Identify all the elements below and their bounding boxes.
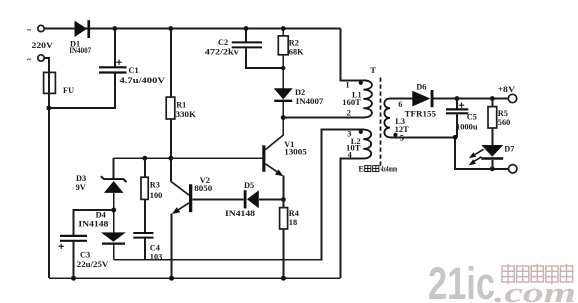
diode D4: [101, 232, 126, 243]
svg-text:1000u: 1000u: [456, 122, 478, 131]
wire: R4 bottom to ground rail: [282, 229, 284, 278]
junction: R5 top: [490, 96, 495, 101]
svg-text:E: E: [358, 165, 364, 174]
junction: C1 top: [112, 26, 117, 31]
transistor V2 collector diagonal: [171, 181, 189, 195]
svg-text:R2: R2: [289, 38, 299, 47]
wire: V1 emitter down to R4: [282, 176, 284, 208]
wire: R2/D2 branch from top rail: [282, 29, 284, 37]
svg-text:472/2kv: 472/2kv: [205, 48, 240, 57]
svg-text:6: 6: [398, 100, 402, 109]
svg-text:330K: 330K: [176, 110, 197, 119]
junction: R2 top: [281, 26, 286, 31]
wire: R5 to D7: [491, 128, 493, 145]
svg-text:C1: C1: [129, 66, 139, 75]
wire: V2 emitter down to ground rail: [171, 214, 173, 279]
junction: C1 return on fuse line: [46, 106, 51, 111]
wire: pin 5 line to output return: [390, 137, 508, 169]
svg-text:D6: D6: [416, 82, 426, 91]
svg-text:C3: C3: [80, 251, 90, 260]
svg-text:100: 100: [150, 191, 162, 200]
wire: C1 branch from top rail: [114, 29, 116, 67]
svg-text:R4: R4: [289, 209, 299, 218]
junction: V1 emitter / R4 / D5: [281, 197, 286, 202]
svg-text:8050: 8050: [194, 184, 212, 193]
terminal: AC input bottom: [38, 55, 44, 61]
svg-text:18: 18: [289, 218, 297, 227]
svg-text:21ic: 21ic: [428, 258, 495, 303]
wire: C5 top lead: [456, 99, 458, 109]
label E core (E磁芯4x4mm): [358, 165, 397, 174]
capacitor C4: [133, 233, 153, 238]
wire: D7 bottom lead: [491, 160, 493, 169]
svg-text:22u/25V: 22u/25V: [77, 260, 109, 269]
transformer core (dashed): [380, 78, 382, 167]
wire: D2 to V1 collector node: [282, 102, 284, 135]
wire: pin 6 to D6: [390, 98, 412, 100]
junction: C3 on ground rail: [71, 276, 76, 281]
wire: C5 bottom lead: [456, 114, 458, 137]
wire: D6 to +8V terminal: [434, 98, 509, 100]
wire: fuse line down left side to ground rail: [48, 72, 50, 278]
phase dot L2: [359, 130, 363, 134]
capacitor C5 (polarized): [446, 103, 468, 114]
wire: V2 base line to D5: [192, 199, 243, 201]
svg-text:TFR155: TFR155: [405, 110, 437, 119]
diode D1: [75, 20, 91, 38]
svg-text:IN4007: IN4007: [69, 46, 91, 55]
transformer feedback winding L2: [363, 130, 371, 159]
phase dot L1: [359, 81, 363, 85]
wire: C1 bottom to fuse line: [49, 74, 115, 109]
transistor V1 base bar: [262, 145, 265, 172]
wire: C2 branch from top rail: [245, 29, 247, 43]
wire: C3 bottom to ground rail: [73, 242, 75, 278]
svg-text:13005: 13005: [284, 148, 307, 157]
transistor V1 emitter lead with arrow: [265, 164, 283, 176]
LED D7: [469, 145, 504, 166]
svg-text:4x4mm: 4x4mm: [381, 165, 398, 174]
diode D2: [274, 88, 293, 101]
fuse FU: [44, 72, 56, 93]
resistor R1: [166, 97, 175, 119]
wire: base rail corner down to zener D3: [113, 158, 115, 178]
transistor V2 collector lead: [170, 158, 172, 181]
junction: C5 top: [455, 96, 460, 101]
wire: transformer pin 4 down to ground rail: [340, 159, 363, 279]
wire: C2 bottom to R2 line: [246, 48, 283, 68]
resistor R4: [280, 208, 288, 229]
svg-text:D2: D2: [295, 88, 305, 97]
svg-text:C4: C4: [150, 244, 160, 253]
junction: R1 / V2 collector on base rail: [168, 156, 173, 161]
wire: R5 branch: [491, 99, 493, 107]
svg-text:D7: D7: [504, 145, 514, 154]
svg-text:~: ~: [27, 55, 32, 64]
wire: D4 bottom to feedback line: [113, 245, 115, 260]
transistor V2 base bar: [189, 184, 192, 212]
terminal: output return: [509, 165, 517, 173]
transistor V2 emitter lead with arrow: [172, 203, 189, 214]
terminal: AC input top: [38, 25, 44, 31]
svg-text:103: 103: [150, 253, 162, 262]
wire: feedback line to transformer pin 3: [114, 130, 364, 260]
svg-text:68K: 68K: [289, 47, 304, 56]
svg-text:2: 2: [347, 108, 351, 117]
svg-text:IN4148: IN4148: [78, 219, 108, 228]
capacitor C2: [232, 42, 262, 47]
svg-text:FU: FU: [63, 86, 74, 95]
wire: D3 to D4: [113, 193, 115, 233]
watermark 中国电子网 (faux glyphs): [502, 264, 573, 285]
junction: R1 top: [168, 26, 173, 31]
transformer secondary winding L3: [384, 99, 390, 138]
junction: D7 bottom on return line: [490, 166, 495, 171]
svg-text:220V: 220V: [32, 41, 54, 50]
junction: V2 emitter on ground rail: [169, 276, 174, 281]
svg-text:160T: 160T: [342, 98, 361, 107]
junction: C2 top: [244, 26, 249, 31]
wire: ground rail: [49, 277, 341, 279]
wire: R1 bottom to base rail: [170, 119, 172, 158]
junction: transformer pin2 tap: [281, 115, 286, 120]
svg-text:R5: R5: [498, 109, 508, 118]
wire: R2 bottom to D2: [282, 55, 284, 89]
svg-text:1: 1: [346, 81, 350, 90]
wire: bottom input terminal to fuse line: [44, 58, 49, 72]
terminal: +8V output: [508, 94, 516, 102]
capacitor C1 (polarized): [99, 60, 127, 73]
junction: C5 bottom on pin5 line: [453, 135, 458, 140]
wire: R1 branch from top rail: [170, 29, 172, 98]
wire: R3 branch from base rail: [144, 158, 146, 177]
resistor R2: [278, 36, 288, 55]
wire: base rail (V1 base to D3 corner): [114, 157, 263, 159]
wire: lead to transformer pin 2: [283, 117, 363, 119]
svg-text:9V: 9V: [76, 183, 86, 192]
svg-text:R3: R3: [150, 181, 160, 190]
svg-text:~: ~: [27, 26, 32, 35]
svg-text:IN4007: IN4007: [296, 97, 324, 106]
svg-text:+8V: +8V: [498, 85, 516, 94]
diode D6: [412, 90, 433, 107]
resistor R5: [488, 107, 497, 128]
junction: C3 tap between D3 and D4: [111, 208, 116, 213]
svg-text:R1: R1: [176, 101, 186, 110]
junction: R4 on ground rail: [281, 276, 286, 281]
svg-text:4: 4: [348, 151, 352, 160]
junction: C2 bottom on R2 line: [281, 66, 285, 70]
phase dot L3: [393, 133, 397, 137]
wire: D5 to V1 emitter node: [259, 199, 284, 201]
junction: R3 on base rail: [142, 156, 147, 161]
svg-text:560: 560: [498, 118, 510, 127]
svg-text:D5: D5: [244, 181, 254, 190]
resistor R3: [141, 177, 148, 199]
wire: tap to C3 top: [74, 210, 114, 235]
wire: top right corner down to transformer pin 1: [340, 29, 363, 81]
diode D5: [244, 190, 259, 208]
svg-text:T: T: [370, 66, 376, 75]
wire: R3 bottom to C4: [144, 199, 146, 232]
svg-text:C5: C5: [467, 113, 477, 122]
zener diode D3: [101, 176, 127, 193]
capacitor C3 (polarized): [59, 236, 88, 249]
wire: top AC rail: [44, 28, 340, 30]
svg-text:4.7u/400V: 4.7u/400V: [120, 76, 166, 85]
transistor V1 collector lead: [265, 135, 283, 150]
svg-text:IN4148: IN4148: [225, 209, 255, 218]
transformer T primary winding L1: [363, 80, 372, 117]
svg-text:C2: C2: [218, 38, 228, 47]
wire: C4 bottom to feedback line: [144, 239, 146, 260]
